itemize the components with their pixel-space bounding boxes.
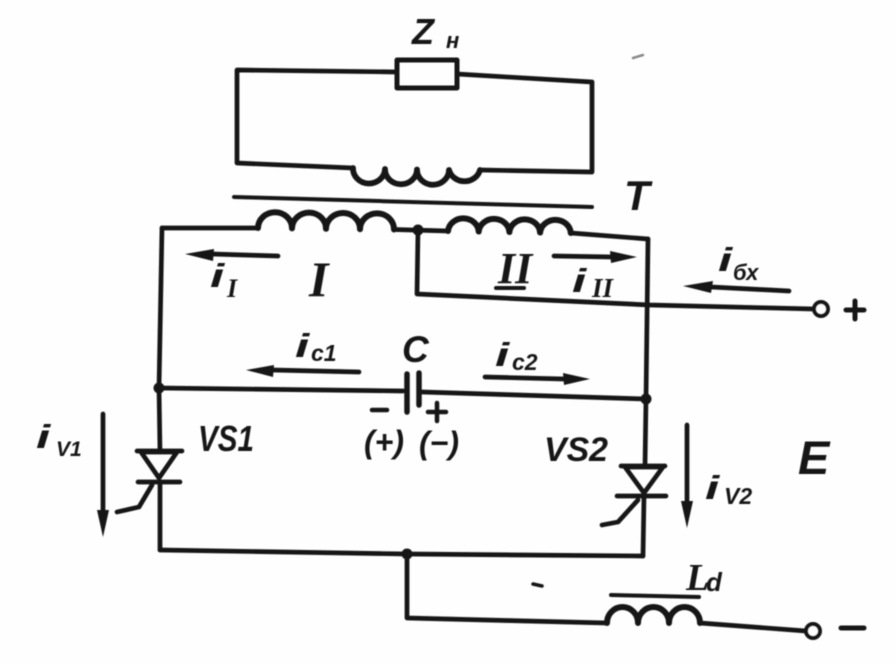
- gate VS1: [117, 485, 152, 512]
- svg-text:(−): (−): [419, 425, 459, 461]
- label T: [624, 172, 653, 219]
- label (+): [364, 424, 404, 460]
- svg-text:VS2: VS2: [544, 431, 608, 469]
- label I winding: [308, 251, 330, 307]
- label II winding (underlined): [497, 244, 534, 293]
- svg-text:V2: V2: [724, 483, 752, 509]
- wire primary left: [162, 226, 258, 231]
- svg-text:i: i: [718, 242, 733, 279]
- arrow i_c2: [485, 377, 564, 379]
- capacitor C plates: [404, 374, 410, 412]
- svg-text:i: i: [495, 337, 510, 374]
- wire to inductor: [407, 554, 607, 623]
- arrow i_c1: [272, 370, 359, 372]
- node right cap junction: [641, 394, 652, 405]
- wire capacitor row left: [159, 388, 403, 391]
- inductor Ld: [607, 607, 700, 623]
- winding I: [258, 212, 394, 229]
- wire primary right to corner: [571, 233, 648, 239]
- svg-text:VS1: VS1: [198, 418, 254, 459]
- label E: [798, 431, 831, 484]
- wire capacitor row right: [422, 392, 646, 399]
- svg-text:бх: бх: [733, 260, 759, 285]
- svg-text:T: T: [624, 172, 653, 219]
- wire right vertical upper: [646, 239, 648, 399]
- svg-text:с2: с2: [512, 349, 538, 375]
- label i_I: [210, 258, 238, 303]
- wire top loop left: [237, 70, 397, 168]
- label i_V2: [705, 470, 752, 509]
- minus sign: [841, 626, 864, 631]
- wire left vertical: [159, 228, 162, 388]
- terminal + circle: [814, 302, 828, 316]
- small dash artifact: [533, 584, 542, 586]
- svg-text:C: C: [402, 329, 430, 370]
- label i_V1: [36, 419, 82, 461]
- stray mark: [633, 55, 643, 58]
- resistor Zн: [397, 60, 457, 88]
- label C: [402, 329, 430, 370]
- wire center tap segment: [394, 230, 448, 232]
- arrow i_II: [554, 256, 613, 257]
- svg-text:i: i: [36, 419, 51, 456]
- wire VS2 cathode: [643, 496, 644, 556]
- transformer T secondary winding: [353, 168, 480, 185]
- label Ld: [685, 557, 723, 599]
- svg-text:i: i: [705, 470, 720, 507]
- label VS1: [198, 418, 254, 459]
- label i_II: [572, 263, 615, 303]
- transformer core: [234, 197, 592, 207]
- thyristor VS2: [621, 464, 665, 469]
- node left cap junction: [154, 383, 165, 394]
- arrow i_бх: [711, 287, 789, 291]
- gate VS2: [602, 500, 638, 525]
- svg-text:i: i: [295, 328, 310, 365]
- node bottom junction: [402, 549, 413, 560]
- svg-text:II: II: [591, 273, 615, 303]
- wire inductor to terminal: [700, 623, 806, 631]
- plus sign: [846, 301, 864, 319]
- winding II: [448, 218, 571, 233]
- wire VS1 cathode: [158, 482, 163, 550]
- svg-text:н: н: [446, 28, 459, 53]
- minus sign near plate: [372, 408, 387, 413]
- svg-text:с1: с1: [311, 340, 337, 366]
- label (−): [419, 425, 459, 461]
- svg-text:(+): (+): [364, 424, 404, 460]
- svg-text:V1: V1: [56, 438, 82, 461]
- wire VS2 anode: [645, 399, 646, 466]
- arrow i_V1: [101, 414, 106, 512]
- svg-text:i: i: [572, 263, 587, 300]
- svg-text:Z: Z: [411, 11, 436, 52]
- label VS2: [544, 431, 608, 469]
- thyristor VS1: [137, 449, 182, 454]
- svg-text:I: I: [226, 274, 238, 303]
- svg-text:E: E: [798, 431, 831, 484]
- wire VS1 anode: [159, 388, 160, 452]
- terminal - circle: [806, 624, 820, 638]
- wire top loop right: [457, 74, 592, 172]
- svg-text:d: d: [706, 567, 723, 597]
- label i_бх: [718, 242, 759, 285]
- label i_c2: [495, 337, 538, 375]
- label Zн: [411, 11, 459, 53]
- wire bottom: [160, 550, 643, 556]
- svg-text:II: II: [497, 244, 534, 293]
- plus sign near plate: [428, 403, 446, 421]
- arrow i_I: [212, 254, 278, 256]
- label i_c1: [295, 328, 337, 366]
- svg-text:I: I: [308, 251, 330, 307]
- node center tap: [413, 225, 424, 236]
- wire center tap down and to + terminal: [417, 230, 814, 309]
- arrow i_V2: [685, 425, 690, 503]
- svg-text:i: i: [210, 258, 225, 295]
- core bar Ld: [611, 595, 699, 597]
